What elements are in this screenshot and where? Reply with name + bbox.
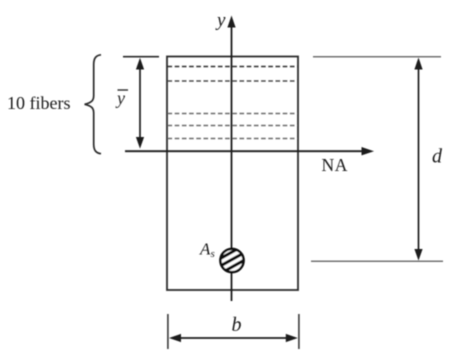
b dimension arrow line — [173, 337, 294, 339]
svg-text:y: y — [115, 88, 125, 108]
svg-text:s: s — [211, 248, 215, 260]
b left extension line — [167, 314, 169, 349]
fiber dashed line 4 — [168, 125, 298, 127]
fiber dashed line 3 — [168, 113, 298, 115]
y axis line — [231, 24, 233, 301]
d dimension arrow line — [418, 62, 420, 256]
y-bar dimension arrow line — [139, 62, 141, 143]
b left arrowhead — [169, 334, 181, 342]
NA arrowhead — [362, 147, 375, 155]
d top arrowhead — [414, 58, 422, 70]
NA axis line — [125, 150, 366, 152]
As circle hatching — [214, 242, 250, 285]
y-bar top arrowhead — [136, 58, 144, 70]
b right extension line — [298, 314, 300, 349]
As steel bar circle — [220, 249, 243, 272]
svg-text:b: b — [232, 314, 242, 336]
fiber dashed line 5 — [168, 138, 298, 140]
y-bar label overbar — [118, 89, 129, 91]
d top extension line — [313, 56, 441, 58]
svg-text:y: y — [215, 10, 226, 31]
svg-text:A: A — [199, 240, 211, 259]
svg-text:d: d — [432, 146, 443, 168]
d bottom arrowhead — [414, 249, 422, 261]
svg-text:NA: NA — [322, 155, 348, 175]
y-bar bottom arrowhead — [136, 137, 144, 149]
svg-text:10 fibers: 10 fibers — [7, 93, 70, 113]
fiber dashed line 1 — [168, 66, 298, 68]
d bottom extension line — [311, 260, 443, 262]
top tick of y-bar dimension — [123, 56, 159, 58]
b right arrowhead — [286, 334, 298, 342]
fiber dashed line 2 — [168, 80, 298, 82]
beam section rectangle — [167, 57, 298, 291]
y axis arrowhead — [227, 16, 235, 28]
curly brace — [85, 55, 101, 154]
